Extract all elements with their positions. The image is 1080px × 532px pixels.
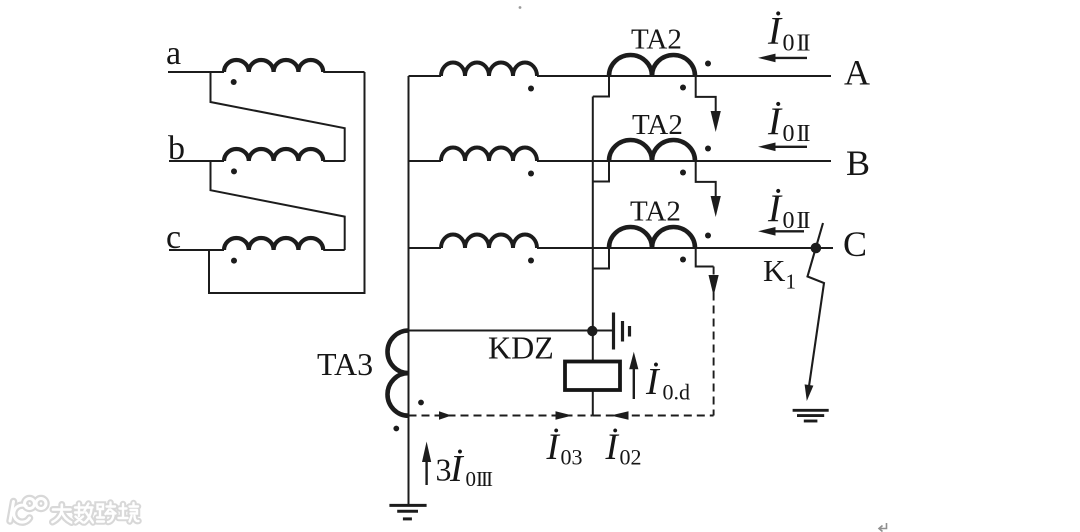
polarity dot winding a — [231, 79, 237, 85]
svg-text:İ: İ — [449, 448, 465, 490]
svg-text:İ: İ — [767, 187, 783, 230]
polarity dot TA2-A lower — [680, 85, 686, 91]
wire row C — [409, 247, 834, 249]
label I0II (row B) — [767, 100, 810, 147]
wire phase c tail — [323, 249, 345, 251]
label I0II (row A) — [767, 10, 810, 57]
arrow I0.d up — [629, 352, 638, 399]
arrow I0II row B (left) — [758, 143, 807, 152]
arrow I03 first (right) — [439, 411, 452, 420]
label I03 — [546, 427, 583, 470]
svg-text:0.d: 0.d — [663, 380, 691, 405]
arrow I0II row C (left) — [758, 227, 804, 236]
arrow I03 second (right) — [556, 411, 573, 420]
wire zigzag b-to-c — [211, 161, 345, 250]
arrow fault to ground — [805, 384, 814, 401]
svg-text:A: A — [844, 53, 870, 93]
arrow I0II row A (left) — [758, 54, 807, 63]
label I0.d — [645, 361, 690, 405]
svg-text:C: C — [843, 224, 867, 264]
svg-text:II: II — [797, 31, 811, 57]
arrow I02 (left) — [611, 411, 629, 420]
wire TA3 to relay junction — [409, 330, 614, 332]
svg-text:K: K — [763, 253, 786, 288]
watermark logo 10-00 — [10, 499, 46, 523]
watermark char da — [53, 505, 72, 523]
wire T1 right vertical and bottom return — [209, 72, 365, 293]
watermark char jing — [119, 503, 139, 522]
ground (horizontal, right of junction) — [614, 313, 630, 350]
polarity dot winding c — [231, 258, 237, 264]
svg-text:İ: İ — [767, 100, 783, 143]
polarity dot TA2-B lower — [680, 170, 686, 176]
polarity dot TA3 upper — [418, 400, 424, 406]
svg-text:02: 02 — [620, 445, 642, 470]
wire phase b lead-in — [169, 160, 224, 162]
svg-text:II: II — [797, 121, 811, 147]
watermark char kua — [97, 503, 116, 523]
watermark char shu — [75, 504, 93, 523]
ground (cable bottom) — [389, 505, 426, 519]
wire TA2 secondary common vertical — [592, 97, 594, 416]
inductor row C (cable reactor) — [441, 235, 537, 249]
winding W-c (transformer T1 phase c) — [224, 238, 323, 250]
junction dot at relay top — [587, 326, 597, 336]
wire TA2-A secondary left — [593, 76, 609, 97]
wire phase a tail — [323, 71, 364, 73]
polarity dot TA2-C lower — [680, 257, 686, 263]
inductor row B (cable reactor) — [441, 148, 537, 162]
arrow TA2-C secondary current down — [709, 275, 719, 296]
junction dot K1 on phase C — [811, 243, 822, 254]
svg-text:1: 1 — [786, 270, 797, 294]
wire zigzag a-to-b — [211, 72, 345, 161]
inductor row A (cable reactor) — [441, 63, 537, 77]
svg-text:TA2: TA2 — [631, 24, 682, 56]
polarity dot TA3 lower — [393, 426, 399, 432]
svg-text:B: B — [846, 143, 870, 183]
wire row B — [409, 160, 832, 162]
wire TA2-B secondary left — [593, 161, 609, 182]
label I0II (row C) — [767, 187, 810, 234]
svg-text:KDZ: KDZ — [488, 330, 554, 366]
arrow TA2-A secondary current down — [711, 111, 721, 132]
svg-text:İ: İ — [605, 427, 620, 468]
svg-text:0: 0 — [783, 31, 795, 57]
CT TA2 phase A primary — [609, 55, 695, 76]
wire TA2-B secondary right — [696, 161, 716, 199]
return mark (scan artifact) — [879, 523, 887, 532]
svg-text:TA2: TA2 — [632, 109, 683, 141]
wire TA2-A secondary right — [696, 76, 716, 114]
svg-text:0: 0 — [783, 121, 795, 147]
svg-text:TA3: TA3 — [317, 346, 373, 382]
CT TA3 secondary winding — [388, 331, 409, 416]
svg-text:İ: İ — [546, 427, 561, 468]
wire dashed I02 (right corner to relay) — [593, 415, 714, 417]
svg-text:III: III — [476, 467, 493, 491]
wire phase a lead-in — [168, 71, 224, 73]
svg-text:03: 03 — [561, 445, 583, 470]
svg-text:a: a — [166, 35, 181, 72]
svg-text:TA2: TA2 — [630, 196, 681, 228]
arrow 3I0III up — [422, 442, 431, 486]
label K1 — [763, 253, 796, 294]
winding W-b (transformer T1 phase b) — [224, 149, 323, 161]
speck (scan artifact) — [519, 6, 522, 9]
label 3I0III — [436, 448, 493, 491]
polarity dot reactor A — [528, 86, 534, 92]
relay KDZ coil box — [565, 362, 620, 391]
arrow TA2-B secondary current down — [711, 196, 721, 217]
wire TA2-C secondary left — [593, 248, 609, 269]
wire row A — [409, 75, 832, 77]
polarity dot TA2-A upper — [705, 61, 711, 67]
wire cable main vertical — [408, 76, 410, 505]
wire TA2-C secondary right — [696, 248, 714, 267]
polarity dot reactor B — [528, 171, 534, 177]
polarity dot TA2-B upper — [705, 146, 711, 152]
CT TA2 phase C primary — [609, 227, 695, 248]
wire dashed I03 (TA3 to relay) — [409, 415, 593, 417]
polarity dot winding b — [231, 168, 237, 174]
svg-text:İ: İ — [645, 361, 661, 403]
polarity dot TA2-C upper — [705, 233, 711, 239]
ground (fault, bottom right) — [793, 410, 829, 421]
svg-text:İ: İ — [767, 10, 783, 53]
polarity dot reactor C — [528, 258, 534, 264]
fault K1 line — [808, 223, 825, 391]
winding W-a (transformer T1 phase a) — [224, 60, 323, 72]
svg-text:0: 0 — [466, 467, 477, 491]
CT TA2 phase B primary — [609, 140, 695, 161]
wire phase b tail — [323, 160, 345, 162]
wire TA2-C secondary dashed drop — [713, 267, 715, 416]
wire phase c lead-in — [169, 249, 224, 251]
label I02 — [605, 427, 642, 470]
